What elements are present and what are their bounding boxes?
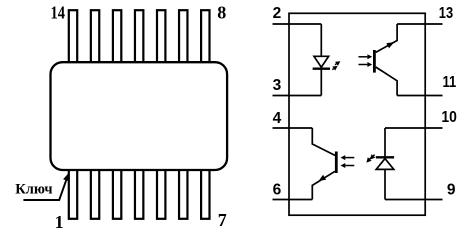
VT1 incoming light arrows xyxy=(359,56,368,58)
svg-text:7: 7 xyxy=(218,210,227,230)
key pointer arrowhead xyxy=(63,173,69,181)
pin 9 wire xyxy=(385,199,443,201)
VT2 emitter arrowhead xyxy=(319,175,327,181)
key pointer line xyxy=(23,179,66,201)
pin 10 wire xyxy=(385,127,443,129)
VT1 lower lead (collector, to pin 11) xyxy=(376,67,397,96)
wire: LED D1 vertical (pin 2 to pin 3) xyxy=(320,24,322,96)
pin 4 wire xyxy=(273,127,313,129)
svg-text:Ключ: Ключ xyxy=(15,181,52,197)
svg-text:11: 11 xyxy=(443,74,457,91)
VT1 upper lead (emitter, to pin 13) xyxy=(376,24,397,52)
svg-text:9: 9 xyxy=(447,182,456,199)
LED D1 emission arrows xyxy=(335,64,337,65)
VT2 upper lead (collector, to pin 4) xyxy=(312,128,335,155)
top pins of IC package (pins 14..8) xyxy=(69,10,77,64)
svg-text:10: 10 xyxy=(441,109,457,126)
pin 3 wire xyxy=(273,95,322,97)
bottom pins of IC package (pins 1..7) xyxy=(69,166,77,219)
LED D2 (pins 10-9) triangle xyxy=(376,159,394,170)
svg-text:6: 6 xyxy=(273,181,282,198)
LED D2 emission arrows xyxy=(373,155,374,156)
LED D2 cathode bar xyxy=(376,156,394,158)
svg-text:1: 1 xyxy=(55,212,64,232)
VT2 incoming light arrows xyxy=(345,157,354,159)
LED D1 (pins 2-3) triangle xyxy=(314,56,329,67)
LED D1 cathode bar xyxy=(313,68,330,70)
svg-text:2: 2 xyxy=(273,5,282,22)
VT2 lower lead (emitter, to pin 6) xyxy=(312,171,335,199)
pin 13 wire xyxy=(397,23,442,25)
wire: LED D2 vertical (pin 10 to pin 9) xyxy=(384,128,386,200)
optocoupler outer box xyxy=(289,13,425,215)
svg-text:13: 13 xyxy=(439,5,454,22)
pin 2 wire xyxy=(273,23,322,25)
svg-text:14: 14 xyxy=(51,3,66,23)
svg-text:8: 8 xyxy=(217,2,226,22)
phototransistor VT1 (pins 13-11) base bar xyxy=(373,50,376,73)
pin 11 wire xyxy=(397,95,442,97)
svg-text:3: 3 xyxy=(273,77,282,94)
IC package body xyxy=(51,62,228,170)
VT1 emitter arrowhead xyxy=(386,42,394,48)
phototransistor VT2 (pins 4-6) base bar xyxy=(335,152,338,174)
pin 6 wire xyxy=(273,199,313,201)
svg-text:4: 4 xyxy=(273,110,282,127)
